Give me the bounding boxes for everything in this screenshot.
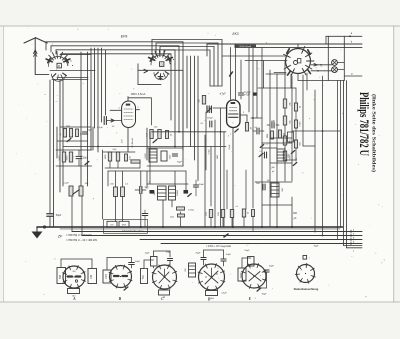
svg-text:0,1μF: 0,1μF [244, 91, 251, 94]
svg-text:50μF: 50μF [244, 250, 250, 252]
wire bundle left [49, 80, 51, 213]
socket E [242, 264, 266, 288]
wire x215 [214, 120, 216, 227]
bus line 3 [82, 235, 362, 237]
tube V1 EF9 [122, 101, 136, 128]
wire V1 grid [110, 109, 121, 111]
bus line 2 [72, 231, 362, 233]
svg-text:E: E [248, 297, 252, 301]
svg-text:10000: 10000 [177, 189, 179, 196]
svg-text:30μF: 30μF [313, 246, 319, 248]
wire row drops [210, 218, 212, 228]
arrow socket B [124, 287, 128, 290]
resistor extra right mid [288, 132, 294, 142]
svg-text:300μF: 300μF [207, 118, 213, 120]
capacitor C 0,1 [256, 128, 258, 134]
resistor R h [131, 160, 140, 163]
resistor socket C left [141, 269, 148, 284]
wire right verticals [302, 75, 304, 146]
wire V1 anode [127, 97, 129, 102]
terminal dot on bus [43, 226, 45, 228]
capacitor C out [142, 213, 148, 215]
page background [4, 26, 395, 302]
svg-text:30μF: 30μF [87, 130, 93, 132]
svg-text:50μF: 50μF [56, 214, 62, 217]
wire transformer top [147, 183, 188, 185]
svg-text:500: 500 [59, 274, 62, 279]
resistor socket D bottom [206, 291, 218, 296]
resistor socket C top [151, 257, 158, 267]
wire x249 x253 drops [248, 47, 250, 112]
svg-text:EK3: EK3 [232, 32, 238, 36]
svg-text:D: D [161, 63, 163, 67]
transformer T1 secondary [169, 186, 176, 200]
capacitor C 2uF [271, 122, 273, 128]
wire lamp links [337, 62, 344, 64]
wire rails2 bottom link [210, 85, 222, 87]
svg-text:D: D [207, 298, 211, 302]
svg-text:5000: 5000 [241, 272, 243, 278]
svg-text:180V 4,5mA: 180V 4,5mA [131, 92, 146, 96]
svg-text:10μF: 10μF [144, 253, 150, 255]
capacitor socket C top right [167, 258, 172, 260]
resistor IF block2 [161, 151, 167, 161]
wire h131 right [292, 130, 341, 132]
resistor socket C bottom [159, 290, 170, 295]
capacitor C block2 [172, 153, 177, 155]
svg-text:1MΩ: 1MΩ [217, 154, 219, 159]
svg-text:30μF: 30μF [177, 162, 183, 164]
wire rails group 1 [46, 41, 183, 43]
svg-text:Philips 781/782 U: Philips 781/782 U [357, 92, 372, 156]
bus line 4 [140, 239, 362, 241]
svg-text:5000: 5000 [59, 155, 61, 161]
wire block2 frame [146, 128, 148, 160]
wire link h88 [258, 87, 296, 89]
capacitor socket D top right [221, 258, 226, 260]
wire K1 links [60, 126, 91, 128]
wire rails group 2 [152, 39, 222, 41]
capacitor C anode [238, 92, 243, 94]
coil IF block2 bottom [149, 149, 157, 162]
svg-text:WW: WW [267, 134, 269, 138]
svg-text:800Ω 46mA: 800Ω 46mA [239, 45, 251, 48]
capacitor C 500 [262, 184, 264, 190]
bus terminals [350, 230, 352, 233]
wire pair down [115, 197, 117, 222]
svg-text:4,7kΩ: 4,7kΩ [188, 210, 194, 212]
wire bundle mid-left [90, 48, 92, 150]
capacitor C 50uF chassis [47, 213, 53, 215]
wire V2 grid left [213, 107, 226, 109]
lamp symbol [303, 256, 307, 260]
wire bundle 2 [182, 70, 184, 150]
resistor socket B left [103, 270, 111, 283]
potentiometer volume [69, 186, 73, 196]
resistor between C and D [189, 263, 196, 277]
resistor socket E left [238, 268, 246, 281]
capacitor C 50uF out [193, 184, 198, 186]
arrow on bus [224, 234, 228, 237]
tube V3 output [286, 49, 311, 74]
chassis bus [37, 226, 343, 228]
antenna [24, 38, 36, 43]
svg-text:A: A [72, 297, 76, 301]
svg-text:10000: 10000 [145, 152, 147, 158]
label 800ohm 46mA [235, 45, 257, 48]
resistor cluster V1 cathode [108, 152, 111, 161]
wire antenna to tuner L1 [35, 73, 49, 75]
wire right mid links [262, 142, 292, 144]
svg-text:= 781/782 U – 20 = 464 kHz: = 781/782 U – 20 = 464 kHz [66, 239, 98, 242]
svg-text:B: B [118, 297, 122, 301]
wire x102.5 [102, 150, 104, 219]
wire right cluster [255, 181, 292, 183]
wire V3 left link [222, 55, 286, 57]
lamp socket [297, 265, 315, 283]
wire hook c2 [346, 81, 348, 248]
svg-text:Skalenbeleuchtung: Skalenbeleuchtung [294, 287, 319, 291]
svg-text:50μF: 50μF [269, 266, 275, 268]
svg-text:4kΩ: 4kΩ [170, 217, 174, 219]
wire P1 down [205, 112, 207, 140]
switch box LTh [107, 221, 117, 227]
svg-text:1MΩ: 1MΩ [105, 154, 107, 159]
resistor row on bus [209, 210, 212, 218]
svg-text:Chassisbuchse Taste: Chassisbuchse Taste [122, 230, 144, 233]
svg-text:30μF: 30μF [261, 294, 267, 296]
resistor socket A bottom [68, 289, 80, 294]
wire L1 out [50, 70, 95, 72]
coil L choke [271, 183, 279, 197]
wire coupling nest top right [245, 60, 287, 62]
capacitor socket E right [264, 269, 269, 271]
socket D [199, 264, 225, 290]
arrow socket E [257, 288, 261, 291]
pilot lamp box [327, 36, 329, 80]
tuned circuit L1 bandswitch [48, 56, 67, 66]
svg-text:EF9: EF9 [121, 35, 128, 39]
resistor R 4,7k [177, 207, 185, 210]
ground symbol [36, 227, 38, 232]
resistor cluster right mid [270, 131, 273, 139]
wire tube to lamps [311, 64, 332, 66]
resistor pair mid [114, 187, 118, 197]
wire cluster links [103, 151, 135, 153]
wire right col verticals [252, 118, 254, 208]
capacitor C p1 [209, 121, 211, 127]
wire socket C loop [153, 266, 155, 268]
scan speckles [16, 28, 384, 299]
wire AVC line long [63, 146, 226, 148]
wire V1 right stub [136, 109, 140, 111]
wire V1 cathode down [127, 128, 129, 153]
resistor stack x285 [284, 61, 286, 100]
trimmer capacitor L2 [160, 75, 162, 80]
resistor cluster K3 [150, 130, 153, 139]
socket B [110, 266, 132, 288]
svg-text:D: D [58, 64, 60, 68]
wire socket B loop [106, 258, 108, 271]
pilot lamp La1 [332, 60, 338, 66]
wire pot down [71, 196, 73, 232]
wire block1 frame [56, 127, 58, 158]
svg-text:0,5μF: 0,5μF [97, 127, 103, 129]
contact blob left [150, 190, 155, 194]
svg-text:↑: ↑ [309, 257, 310, 260]
coil 1000 [277, 149, 285, 161]
socket C [153, 265, 177, 289]
resistor cluster K1 [63, 129, 66, 138]
svg-text:30μF: 30μF [135, 261, 141, 263]
resistor R 4k [178, 214, 185, 217]
wire terminal p [344, 75, 362, 77]
page border frame [0, 25, 400, 27]
capacitor C right mid [263, 152, 265, 158]
svg-text:30μF: 30μF [195, 253, 201, 255]
svg-text:= 27kΩ + LTh Gegentakt: = 27kΩ + LTh Gegentakt [206, 245, 231, 248]
resistor socket E top [248, 257, 255, 267]
wire transformer down [162, 200, 164, 227]
socket A [63, 266, 85, 288]
wire L2 frame [137, 64, 139, 85]
bus line 5 [161, 243, 362, 245]
svg-text:0,1μF: 0,1μF [229, 144, 231, 150]
svg-text:1000: 1000 [106, 273, 108, 279]
svg-text:0,5μF: 0,5μF [221, 293, 227, 295]
svg-text:50μF: 50μF [199, 184, 205, 186]
svg-text:47kΩ: 47kΩ [209, 149, 211, 154]
svg-text:= 781/792 U = 473 kHz: = 781/792 U = 473 kHz [66, 234, 92, 237]
wire socket A loop [60, 259, 62, 268]
wire supply bus a [326, 35, 362, 37]
svg-text:(linke Seite des Schaltbildes): (linke Seite des Schaltbildes) [371, 94, 376, 172]
wire hook c1 [343, 81, 345, 246]
wire V2 right pin [240, 114, 247, 116]
capacitor C grid 50uF [103, 117, 105, 125]
wire x262 drop [261, 47, 263, 65]
svg-text:300: 300 [293, 212, 298, 215]
resistor cluster K2 [62, 152, 65, 162]
svg-text:0,5M: 0,5M [300, 121, 302, 126]
wire V2 anode feed [230, 47, 232, 99]
wire socket D loop [203, 260, 205, 265]
pilot lamp La2 [332, 67, 338, 73]
resistor socket A left [57, 268, 66, 284]
wire socket E loop [241, 258, 243, 268]
capacitor C K1 [82, 131, 87, 133]
wire V2 cathode down [232, 128, 234, 227]
transformer T1 primary [158, 186, 167, 200]
resistor stack x296 [294, 103, 297, 111]
capacitor C grid left [206, 106, 208, 113]
svg-text:50μF: 50μF [226, 254, 232, 256]
capacitor C 30uF [76, 155, 82, 157]
capacitor socket B top [129, 262, 135, 264]
capacitor socket D top left [201, 257, 206, 259]
svg-text:30μF: 30μF [83, 158, 89, 160]
svg-text:3000: 3000 [67, 155, 69, 161]
svg-text:2μF: 2μF [271, 121, 275, 123]
switch frame box [104, 220, 148, 234]
resistor socket A right [88, 269, 97, 284]
svg-text:1ST: 1ST [122, 138, 124, 143]
svg-text:5μF: 5μF [145, 187, 149, 189]
wire K2 links [56, 149, 92, 151]
tuned circuit L2 bandswitch [151, 55, 170, 65]
wire block2 links [147, 147, 183, 149]
capacitor C 5uF [139, 187, 141, 194]
svg-text:∗7μF: ∗7μF [219, 93, 226, 96]
svg-text:0,1μF: 0,1μF [63, 183, 69, 185]
contact blob right [184, 190, 189, 194]
tube V2 ECH [227, 100, 240, 128]
wire supply bus pair [207, 43, 362, 45]
svg-text:100: 100 [90, 274, 93, 279]
wire AVC line 1 [152, 131, 227, 133]
switch box MTh [119, 221, 129, 227]
wire V3 top [297, 44, 299, 49]
wire antenna down-lead [34, 38, 36, 75]
wire V3 bottom [297, 74, 299, 81]
